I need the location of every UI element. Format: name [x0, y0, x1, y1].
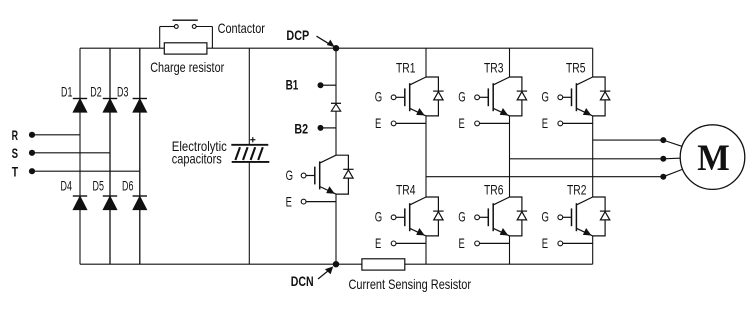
- wire: phase leg between TR5 and TR2: [592, 116, 594, 197]
- svg-text:E: E: [459, 115, 465, 131]
- diode D1: [73, 99, 87, 113]
- svg-text:G: G: [458, 89, 465, 105]
- diode D5: [103, 196, 117, 210]
- diode D6: [133, 196, 147, 210]
- svg-text:TR5: TR5: [566, 60, 586, 76]
- freewheel diode of TR6: [510, 197, 528, 236]
- freewheel diode of TR5: [593, 77, 611, 116]
- node DCN: [291, 261, 339, 289]
- svg-text:G: G: [542, 89, 549, 105]
- freewheel diode of TR1: [426, 77, 444, 116]
- svg-text:G: G: [375, 209, 382, 225]
- transistor TR1 (IGBT): [391, 77, 426, 126]
- svg-text:D3: D3: [117, 84, 129, 99]
- wire: TR6 emitter to DC- bus: [509, 236, 511, 264]
- wire: W to motor: [663, 170, 682, 177]
- svg-text:B2: B2: [294, 121, 308, 137]
- transistor TR2 (IGBT): [558, 197, 593, 246]
- svg-text:S: S: [12, 145, 18, 161]
- node DCP: [286, 27, 339, 51]
- wire: V to motor: [663, 157, 680, 160]
- node: motor terminal U: [660, 137, 666, 143]
- wire: brake emitter to DCN: [335, 194, 337, 264]
- transistor brake IGBT (IGBT): [301, 155, 336, 204]
- freewheel diode of TR3: [510, 77, 528, 116]
- svg-text:TR3: TR3: [484, 60, 504, 76]
- svg-text:E: E: [542, 115, 548, 131]
- capacitor: electrolytic capacitors: [231, 137, 269, 162]
- svg-text:TR6: TR6: [484, 181, 504, 197]
- wire: rectifier leg 1: [79, 48, 81, 264]
- input terminal S: [12, 145, 110, 161]
- node: motor terminal V: [660, 156, 666, 162]
- input terminal R: [12, 127, 80, 143]
- svg-text:R: R: [12, 127, 18, 143]
- svg-text:E: E: [459, 235, 465, 251]
- wire: capacitor branch upper: [248, 48, 250, 144]
- svg-text:capacitors: capacitors: [172, 151, 222, 167]
- freewheel diode of TR2: [593, 197, 611, 236]
- svg-text:D2: D2: [90, 84, 101, 99]
- diode D2: [103, 99, 117, 113]
- svg-text:D5: D5: [93, 178, 105, 193]
- node B1: [286, 77, 336, 93]
- svg-text:Current Sensing Resistor: Current Sensing Resistor: [349, 276, 472, 292]
- wire: rectifier leg 3: [139, 48, 141, 264]
- wire: TR3 collector from DC+ bus: [509, 48, 511, 77]
- svg-text:G: G: [542, 209, 549, 225]
- freewheel diode of brake IGBT: [336, 155, 354, 194]
- svg-text:D1: D1: [61, 84, 72, 99]
- input terminal T: [12, 163, 140, 179]
- svg-text:DCN: DCN: [291, 273, 314, 289]
- wire: U to motor: [663, 140, 681, 146]
- svg-text:Charge resistor: Charge resistor: [150, 59, 224, 75]
- diode: brake diode between B1 and B2: [331, 103, 341, 111]
- wire: DC+ top bus left segment: [80, 47, 164, 49]
- wire: TR5 collector from DC+ bus: [592, 48, 594, 77]
- svg-text:TR2: TR2: [567, 181, 587, 197]
- svg-text:E: E: [375, 115, 381, 131]
- wire: DCP vertical to brake chopper: [335, 48, 337, 155]
- resistor: charge resistor: [164, 43, 207, 54]
- svg-text:TR1: TR1: [396, 60, 416, 76]
- transistor TR3 (IGBT): [475, 77, 510, 126]
- wire: rectifier leg 2: [109, 48, 111, 264]
- transistor TR4 (IGBT): [391, 197, 426, 246]
- wire: TR4 emitter to DC- bus: [425, 236, 427, 264]
- wire: DC+ top bus right segment: [207, 47, 593, 49]
- contactor (parallel switch): [160, 20, 213, 48]
- svg-text:E: E: [542, 235, 548, 251]
- diode D4: [73, 196, 87, 210]
- wire: DC- bottom bus left segment: [80, 263, 362, 265]
- svg-text:E: E: [375, 235, 381, 251]
- svg-text:G: G: [286, 167, 293, 183]
- freewheel diode of TR4: [426, 197, 444, 236]
- diode D3: [133, 99, 147, 113]
- svg-text:E: E: [286, 193, 292, 209]
- svg-text:T: T: [12, 163, 19, 179]
- svg-text:G: G: [458, 209, 465, 225]
- wire: motor phase output from leg at x=426.0: [426, 176, 663, 178]
- wire: motor phase output from leg at x=592.7: [593, 139, 664, 141]
- svg-text:DCP: DCP: [286, 27, 309, 43]
- wire: phase leg between TR3 and TR6: [509, 116, 511, 197]
- svg-text:G: G: [375, 89, 382, 105]
- transistor TR6 (IGBT): [475, 197, 510, 246]
- label Electrolytic capacitors: [172, 138, 227, 166]
- svg-text:D4: D4: [61, 178, 73, 193]
- transistor TR5 (IGBT): [558, 77, 593, 126]
- wire: phase leg between TR1 and TR4: [425, 116, 427, 197]
- wire: TR2 emitter to DC- bus: [592, 236, 594, 264]
- svg-text:M: M: [697, 137, 730, 178]
- wire: TR1 collector from DC+ bus: [425, 48, 427, 77]
- motor M: [680, 125, 745, 190]
- svg-text:TR4: TR4: [396, 181, 416, 197]
- resistor: current sensing resistor: [362, 259, 405, 270]
- node: motor terminal W: [660, 174, 666, 180]
- wire: capacitor branch lower: [248, 162, 250, 264]
- node B2: [294, 121, 336, 137]
- svg-text:Contactor: Contactor: [218, 20, 266, 36]
- wire: motor phase output from leg at x=509.5: [510, 158, 664, 160]
- wire: DC- bottom bus right segment: [405, 263, 593, 265]
- svg-text:B1: B1: [286, 77, 299, 93]
- svg-text:D6: D6: [122, 178, 134, 193]
